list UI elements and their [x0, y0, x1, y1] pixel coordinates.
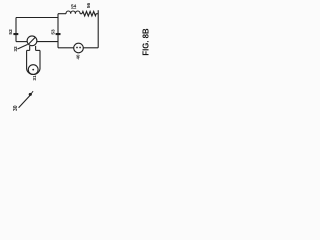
svg-text:54: 54 [71, 3, 77, 8]
svg-text:53: 53 [51, 29, 57, 35]
svg-text:FIG. 8B: FIG. 8B [141, 28, 150, 56]
svg-text:56: 56 [86, 3, 92, 9]
svg-text:40: 40 [76, 54, 81, 59]
svg-text:31: 31 [32, 75, 38, 81]
svg-text:30: 30 [13, 105, 19, 111]
svg-text:32: 32 [13, 46, 19, 52]
svg-text:52: 52 [8, 29, 14, 35]
